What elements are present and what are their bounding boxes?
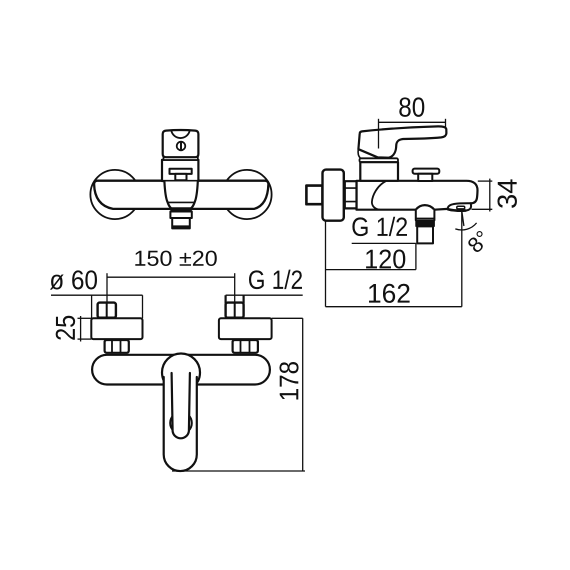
handle screw slot [180, 143, 182, 150]
hex nut (side) [345, 181, 357, 208]
dim 120 line [326, 269, 416, 271]
dim 34 top extension [478, 180, 493, 182]
dim 178 line [302, 318, 304, 471]
hose connection thin line [416, 217, 435, 219]
mixer body (side) [357, 181, 478, 210]
body bar [94, 181, 268, 209]
label dia 60 [50, 270, 97, 289]
hose connection upper [416, 210, 435, 221]
dim 162 line [326, 306, 462, 308]
label 162 [369, 284, 410, 303]
spout outlet circle [170, 412, 192, 434]
diverter knob stem [418, 174, 432, 181]
spout outlet [172, 218, 190, 228]
dia 60 right drop [142, 295, 144, 318]
right escutcheon circle [222, 170, 271, 219]
label 8 deg (rotated) [466, 230, 490, 254]
dim 34 bottom extension [472, 208, 493, 210]
body cap curve [372, 182, 385, 210]
left thread stub [98, 303, 116, 318]
dia 60 line [51, 294, 143, 296]
label 150 +-20 [135, 251, 216, 266]
label 178 (rotated) [279, 362, 298, 400]
collar arc [358, 149, 360, 158]
G 1/2 bottom right drop [243, 295, 245, 303]
dia 60 left drop [91, 295, 93, 318]
label 80 [399, 97, 424, 116]
spout dark ring [171, 208, 191, 211]
label G 1/2 (side) [352, 217, 407, 236]
handle dome [162, 354, 200, 392]
dim 34 line [489, 179, 491, 212]
dim 150 line [107, 276, 235, 278]
G 1/2 vertical (side) [415, 243, 417, 269]
handle base band [164, 157, 198, 160]
handle collar [360, 158, 399, 162]
hose connection lower [417, 226, 433, 243]
G 1/2 bottom line [226, 294, 303, 296]
right escutcheon (front) [219, 318, 272, 339]
dim 25 bottom extension [78, 338, 92, 340]
lever handle (side) [358, 126, 446, 157]
left escutcheon (front) [91, 318, 142, 339]
valve column [360, 162, 398, 181]
label 34 (rotated) [497, 179, 516, 207]
spout top detail: shoulder bar [170, 169, 192, 174]
label 120 [366, 249, 405, 268]
wall escutcheon (side) [323, 170, 344, 221]
spout lip [448, 203, 471, 210]
left hex nut (front) [105, 340, 129, 353]
right stub divider [234, 303, 236, 318]
dim 80 right extension [445, 119, 447, 128]
spout top detail: small block [175, 174, 186, 180]
dim 25 top extension [78, 317, 92, 319]
dim 150 right extension [234, 273, 236, 302]
G 1/2 bottom left drop [225, 295, 227, 303]
dim 150 left extension [106, 273, 108, 302]
spout bell (over bar) [164, 182, 197, 209]
spout lip dark bottom [448, 209, 466, 211]
spout outer drop [164, 377, 197, 471]
handle body (top view) [163, 130, 199, 157]
dim 80 left extension [378, 119, 380, 149]
spout outlet dark tip [173, 226, 190, 229]
dim 178 top extension [272, 317, 303, 319]
label G 1/2 (bottom) [249, 270, 302, 289]
left escutcheon circle [90, 170, 139, 219]
right thread stub [226, 303, 244, 318]
handle screw circle [177, 142, 186, 151]
hex nut facet lines [345, 187, 357, 189]
8 deg arc [455, 223, 476, 230]
body bar capsule (front) [92, 355, 270, 385]
handle top notch (concave arc) [171, 131, 189, 138]
spout tip extension (162) [461, 212, 463, 307]
spout shoulder line [169, 201, 194, 203]
G 1/2 leader (side) [352, 242, 416, 244]
left stub divider [106, 303, 108, 318]
hose connection dark band [416, 220, 435, 226]
spout lip inner detail [457, 206, 465, 209]
right hex nut (front) [233, 340, 258, 353]
8 deg tilted leg [462, 211, 464, 226]
diverter knob cap [413, 169, 440, 174]
dim 80 line [379, 121, 446, 123]
dim 178 bottom extension [172, 470, 305, 472]
lever drop (front) [172, 373, 190, 438]
spout chrome ring [170, 212, 191, 219]
label 25 (rotated) [56, 316, 75, 340]
wall nipple [306, 186, 322, 205]
handle cartridge column [162, 160, 198, 181]
wall reference extension (side) [325, 221, 327, 307]
dim 25 line [80, 316, 82, 342]
